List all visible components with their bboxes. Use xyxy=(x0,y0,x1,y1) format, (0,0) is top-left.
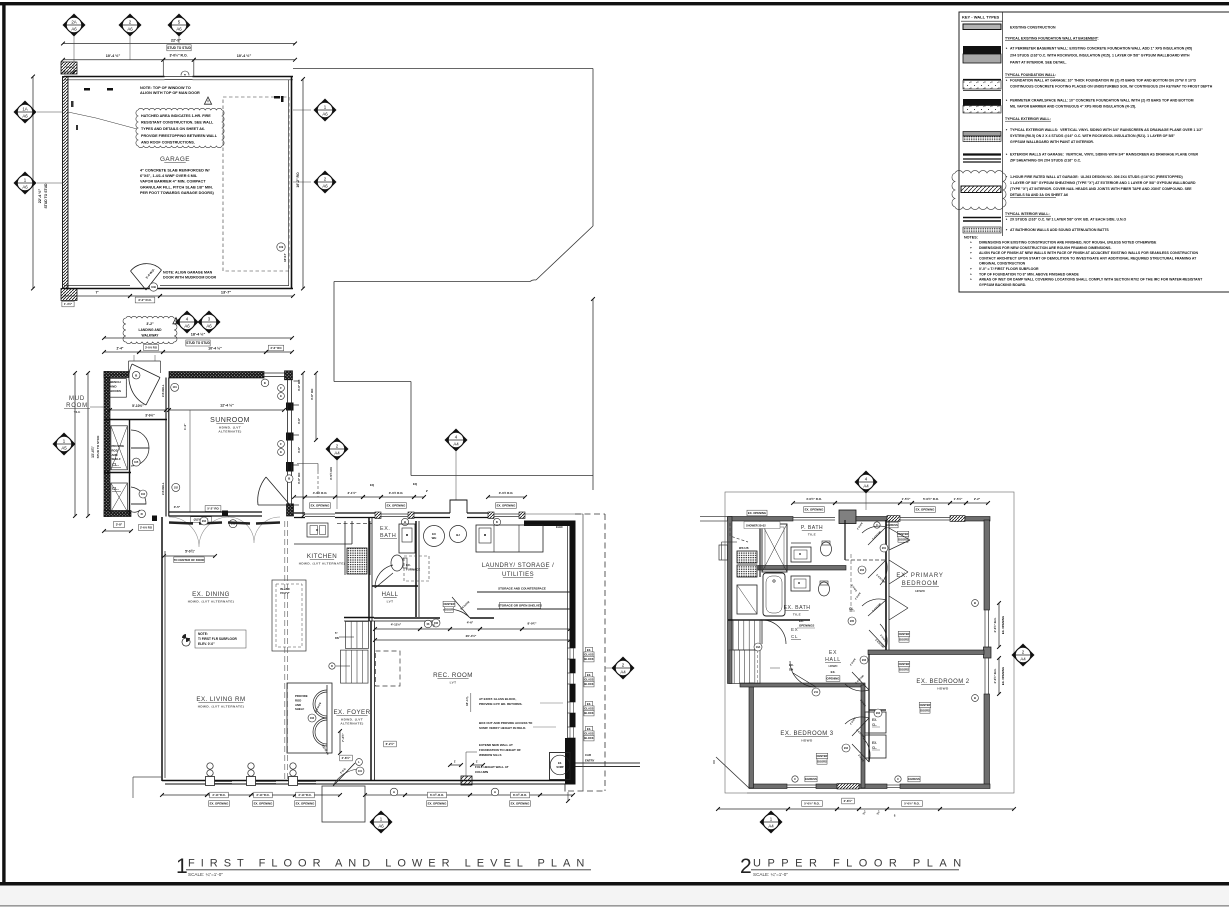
svg-text:BLOCK: BLOCK xyxy=(584,736,593,740)
benchmark note first floor subfloor xyxy=(195,630,246,648)
svg-text:EGRESS: EGRESS xyxy=(805,777,817,781)
svg-text:HATCHED AREA INDICATES 1-HR. F: HATCHED AREA INDICATES 1-HR. FIRE xyxy=(141,114,211,118)
marker 2/A6 right of garage xyxy=(314,171,337,194)
svg-text:SUNROOM: SUNROOM xyxy=(210,417,250,424)
legend swatch typical exterior wall xyxy=(963,132,1001,137)
svg-text:T/ FIRST FLR SUBFLOOR: T/ FIRST FLR SUBFLOOR xyxy=(198,637,237,641)
svg-text:GLASS: GLASS xyxy=(585,678,594,682)
svg-text:ALIGN FACE OF FINISH AT NEW WA: ALIGN FACE OF FINISH AT NEW WALLS WITH F… xyxy=(979,251,1198,255)
svg-text:DOORS: DOORS xyxy=(899,637,909,641)
svg-text:C: C xyxy=(794,777,796,781)
svg-text:A6: A6 xyxy=(322,184,328,189)
svg-text:CENTER: CENTER xyxy=(817,754,828,758)
laundry circle BJ xyxy=(450,526,467,543)
svg-text:10'-4 ½": 10'-4 ½" xyxy=(208,347,222,351)
svg-text:STUD TO STUD: STUD TO STUD xyxy=(44,183,48,209)
upper top wall segments xyxy=(728,517,794,522)
legend swatch interior wall sound xyxy=(963,227,1001,233)
svg-text:MIL VAPOR BARRIER AND CONTINUO: MIL VAPOR BARRIER AND CONTINUOUS 4" XPS … xyxy=(1010,105,1136,109)
kitchen range xyxy=(347,548,367,574)
sunroom bottom dims xyxy=(205,506,221,512)
svg-text:4'-0½" R.O.: 4'-0½" R.O. xyxy=(993,617,997,632)
kitchen upper cabinet dashed line xyxy=(337,523,372,525)
svg-text:NOTE:: NOTE: xyxy=(198,632,208,636)
svg-text:5'-0½" R.O.: 5'-0½" R.O. xyxy=(804,802,820,806)
deck edge line right of rec room xyxy=(582,514,584,791)
svg-text:EX. OPENING: EX. OPENING xyxy=(805,508,825,512)
marker 1/A4 below upper plan xyxy=(760,811,783,834)
svg-text:SHOWER 32×32: SHOWER 32×32 xyxy=(746,524,766,528)
existing house outline diagonal xyxy=(536,226,593,280)
ex opening window laundry xyxy=(494,513,519,515)
chimney bump xyxy=(450,500,467,513)
marker 2/A4 right of upper plan xyxy=(1012,644,1035,667)
svg-text:TYPICAL INTERIOR WALL:: TYPICAL INTERIOR WALL: xyxy=(1005,212,1050,216)
beam dashed line dining xyxy=(284,521,286,780)
kitchen right counter xyxy=(344,521,346,575)
svg-text:FOUNDATION WALL AT GARAGE: 10": FOUNDATION WALL AT GARAGE: 10" THICK FOU… xyxy=(1010,79,1197,83)
flue dashed line xyxy=(730,523,748,542)
svg-text:BLOCK: BLOCK xyxy=(584,682,593,686)
cloud note landing and walkway xyxy=(123,316,177,343)
svg-text:D: D xyxy=(331,665,333,668)
svg-text:BLOCK: BLOCK xyxy=(584,711,593,715)
svg-text:1'-4": 1'-4" xyxy=(183,423,187,430)
upper dim row above xyxy=(793,502,835,504)
sunroom top wall insulated band xyxy=(169,372,264,379)
svg-text:SUMP: SUMP xyxy=(556,766,564,769)
svg-text:ALIGN WITH TOP OF MAN DOOR: ALIGN WITH TOP OF MAN DOOR xyxy=(140,91,200,95)
upper left wall xyxy=(728,517,733,684)
svg-text:OPENINGS: OPENINGS xyxy=(799,624,814,628)
svg-text:EX.: EX. xyxy=(831,670,836,674)
marker 2A/A6 xyxy=(63,14,86,37)
left ledge line upper plan xyxy=(722,541,738,543)
svg-text:1-HOUR FIRE RATED WALL AT GARA: 1-HOUR FIRE RATED WALL AT GARAGE: UL263 … xyxy=(1010,175,1183,179)
svg-text:T/: T/ xyxy=(335,631,338,635)
svg-text:2×6 WALL: 2×6 WALL xyxy=(161,384,165,397)
svg-text:CENTER: CENTER xyxy=(443,602,454,606)
svg-text:UPPER FLOOR PLAN: UPPER FLOOR PLAN xyxy=(753,858,968,870)
sunroom right wall window blocks xyxy=(286,403,294,411)
svg-text:DOOR WITH MUDROOM DOOR: DOOR WITH MUDROOM DOOR xyxy=(163,276,217,280)
svg-text:EX.: EX. xyxy=(587,673,591,677)
svg-text:CENTER: CENTER xyxy=(899,632,910,636)
garage top wall window xyxy=(165,76,193,81)
marker 5/A6 xyxy=(168,14,191,37)
upper plan existing footprint outline xyxy=(725,492,1014,793)
sunroom right outside dim column xyxy=(302,373,304,516)
svg-text:EX. OPENING: EX. OPENING xyxy=(387,504,407,508)
garage top dimension line 22'-9 xyxy=(63,43,295,45)
ex cl door swing xyxy=(762,620,786,644)
svg-text:EX.: EX. xyxy=(789,663,794,667)
wd closet partition xyxy=(759,521,761,577)
window sill ticks right wall xyxy=(294,380,300,382)
svg-text:EX.: EX. xyxy=(872,718,877,722)
garage right wall window mark xyxy=(274,96,280,99)
svg-text:PERIMETER CRAWLSPACE WALL: 10": PERIMETER CRAWLSPACE WALL: 10" CONCRETE … xyxy=(1010,99,1194,103)
svg-text:STORAGE OR OPEN SHELVES: STORAGE OR OPEN SHELVES xyxy=(498,604,542,608)
svg-text:1: 1 xyxy=(176,855,188,878)
svg-text:B: B xyxy=(974,601,976,605)
railing double line to car entry xyxy=(576,762,641,764)
bottom right wall step xyxy=(564,785,566,792)
svg-text:13'-4¾": 13'-4¾" xyxy=(91,446,95,458)
svg-text:A6: A6 xyxy=(71,27,77,32)
svg-text:FULL HEIGHT WALL AT: FULL HEIGHT WALL AT xyxy=(475,765,509,769)
svg-text:ROD: ROD xyxy=(112,448,118,452)
svg-text:EX. OPENING: EX. OPENING xyxy=(296,802,316,806)
french door swings into dining xyxy=(169,517,229,547)
svg-text:EX.: EX. xyxy=(872,741,877,745)
svg-text:CL.: CL. xyxy=(112,462,119,467)
garage man door swing xyxy=(131,264,162,290)
svg-text:101: 101 xyxy=(358,770,363,773)
mudroom top dimension 18'-4 xyxy=(104,337,292,339)
svg-text:TO CENTER OF DOOR: TO CENTER OF DOOR xyxy=(174,558,206,562)
svg-text:5'-0½" R.O.: 5'-0½" R.O. xyxy=(923,497,939,501)
bottom dim row main plan xyxy=(162,794,207,796)
svg-text:ROOM: ROOM xyxy=(66,403,88,409)
warning triangle garage xyxy=(204,97,211,104)
svg-text:A4: A4 xyxy=(768,824,774,829)
laundry counter with sink xyxy=(476,525,543,552)
svg-text:STORAGE AND COUNTERSPACE: STORAGE AND COUNTERSPACE xyxy=(498,587,546,591)
svg-text:FIRST FLOOR AND LOWER LEVEL PL: FIRST FLOOR AND LOWER LEVEL PLAN xyxy=(188,858,590,870)
svg-text:3'-11"R.O.: 3'-11"R.O. xyxy=(256,793,269,797)
svg-text:10'-4 ½": 10'-4 ½" xyxy=(106,54,121,58)
hall door swing to bedroom3 area xyxy=(790,661,816,687)
center doors label bedroom3 closet xyxy=(816,753,828,758)
svg-text:AND ROOF CONSTRUCTIONS.: AND ROOF CONSTRUCTIONS. xyxy=(141,140,195,144)
sunroom right wall windows xyxy=(287,380,289,504)
svg-text:5'-10½": 5'-10½" xyxy=(132,404,144,408)
svg-text:DOORS: DOORS xyxy=(920,708,930,712)
bath toilet xyxy=(391,555,403,571)
svg-text:5'-0¾": 5'-0¾" xyxy=(185,550,195,554)
cloud note hatched area fire resistant xyxy=(136,108,224,147)
svg-text:DETAILS 5A AND 3A ON SHEET A6: DETAILS 5A AND 3A ON SHEET A6 xyxy=(1010,193,1068,197)
svg-text:5'-2" RO: 5'-2" RO xyxy=(207,507,219,511)
svg-text:E: E xyxy=(280,450,282,454)
marker 2/A4 left of kitchen top xyxy=(326,438,349,461)
svg-text:EX. LIVING RM: EX. LIVING RM xyxy=(196,696,245,703)
svg-text:PER FOOT TOWARDS GARAGE DOORS): PER FOOT TOWARDS GARAGE DOORS) xyxy=(140,191,214,195)
svg-text:ROD: ROD xyxy=(295,698,301,702)
svg-text:A4: A4 xyxy=(453,442,459,447)
svg-text:FOUNDATION TO HEIGHT OF: FOUNDATION TO HEIGHT OF xyxy=(479,748,521,752)
garage window mark right wall xyxy=(281,96,284,102)
svg-text:102: 102 xyxy=(174,486,179,489)
svg-text:3'0×7'2": 3'0×7'2" xyxy=(280,591,291,595)
svg-text:205: 205 xyxy=(850,620,855,623)
legend swatch interior wall xyxy=(963,217,1001,219)
right side dim strip xyxy=(998,603,1000,647)
svg-text:GRANULAR FILL. PITCH SLAB 1/8": GRANULAR FILL. PITCH SLAB 1/8" MIN. xyxy=(140,185,213,189)
marker 1/A5 left of mudroom xyxy=(53,433,76,456)
sheet border top xyxy=(0,2,1229,5)
stair lower flight xyxy=(341,650,369,683)
svg-text:A4: A4 xyxy=(334,451,340,456)
svg-text:DOORS: DOORS xyxy=(817,759,827,763)
svg-text:PAINT AT INTERIOR. SEE DETAIL.: PAINT AT INTERIOR. SEE DETAIL. xyxy=(1010,61,1066,65)
svg-text:EX. OPENING: EX. OPENING xyxy=(1001,667,1005,685)
svg-text:CL.: CL. xyxy=(112,486,119,491)
svg-text:TYPES AND DETAILS ON SHEET A6.: TYPES AND DETAILS ON SHEET A6. xyxy=(141,127,205,131)
svg-text:PROVIDE GYP. BD. RETURNS.: PROVIDE GYP. BD. RETURNS. xyxy=(479,702,522,706)
shower xyxy=(762,524,787,572)
svg-text:204: 204 xyxy=(860,569,865,572)
sunroom top right window xyxy=(264,372,285,374)
svg-text:3'-9½": 3'-9½" xyxy=(145,414,155,418)
column at rec room bottom xyxy=(461,776,472,785)
garage bottom dimension line xyxy=(64,295,130,297)
door tags upper xyxy=(880,544,888,552)
svg-text:BLOCK: BLOCK xyxy=(584,657,593,661)
door tag 105 xyxy=(132,458,140,466)
svg-text:3'-5½ RO: 3'-5½ RO xyxy=(329,466,333,480)
svg-text:4'-0½" R.O.: 4'-0½" R.O. xyxy=(993,668,997,683)
svg-text:2'-8½": 2'-8½" xyxy=(342,756,351,760)
svg-text:HDWD: HDWD xyxy=(915,589,925,593)
door tag 203 xyxy=(229,520,237,528)
legend column divider xyxy=(1002,12,1004,236)
garage top dimension line second row xyxy=(63,59,163,61)
stair upper flight xyxy=(345,622,368,649)
svg-text:GYPSUM BACKING BOARD.: GYPSUM BACKING BOARD. xyxy=(979,283,1026,287)
svg-text:105: 105 xyxy=(134,461,139,464)
svg-text:ZIP SHEATHING ON 2X4 STUDS @16: ZIP SHEATHING ON 2X4 STUDS @16" O.C. xyxy=(1010,159,1081,163)
svg-text:EX. BEDROOM 2: EX. BEDROOM 2 xyxy=(916,679,969,685)
corridor wall xyxy=(868,654,870,762)
svg-text:2'-6½ RO: 2'-6½ RO xyxy=(140,526,153,530)
svg-text:202: 202 xyxy=(202,520,207,523)
svg-text:STUD TO STUD: STUD TO STUD xyxy=(186,341,210,345)
svg-text:E: E xyxy=(280,394,282,398)
svg-text:EX. BEDROOM 3: EX. BEDROOM 3 xyxy=(780,731,833,737)
svg-text:CL: CL xyxy=(849,607,854,611)
upper stairs down flight 2 xyxy=(729,650,760,684)
svg-text:2X4 STUDS @16"O.C. WITH ROCKWO: 2X4 STUDS @16"O.C. WITH ROCKWOOL INSULAT… xyxy=(1010,54,1190,58)
garage left dimension 22'-4 xyxy=(32,77,34,289)
marker 1/A6 bottom of first floor plan xyxy=(370,811,393,834)
svg-text:WALKWAY: WALKWAY xyxy=(142,334,160,338)
svg-text:16'-2" RO: 16'-2" RO xyxy=(296,172,300,188)
circled B top wall xyxy=(132,371,140,379)
svg-text:EGRESS: EGRESS xyxy=(908,777,920,781)
svg-text:3'-2" R.O.: 3'-2" R.O. xyxy=(138,298,152,302)
main floor left wall xyxy=(161,517,163,781)
garage left wall top return detail xyxy=(61,62,77,74)
existing house outline right lower vertical xyxy=(592,299,594,490)
corner block left of dining wall xyxy=(152,516,157,522)
svg-text:GLASS: GLASS xyxy=(585,732,594,736)
svg-text:DIMENSIONS FOR EXISTING CONSTR: DIMENSIONS FOR EXISTING CONSTRUCTION ARE… xyxy=(979,241,1157,245)
svg-text:EX. OPENING: EX. OPENING xyxy=(497,504,517,508)
svg-text:EX. PRIMARY: EX. PRIMARY xyxy=(896,573,943,579)
garage interior wall blocking marks xyxy=(84,88,90,91)
svg-text:TOP OF FOUNDATION TO 8" MIN. A: TOP OF FOUNDATION TO 8" MIN. ABOVE FINIS… xyxy=(979,272,1080,276)
svg-text:211: 211 xyxy=(814,691,819,694)
rec room left wall xyxy=(370,621,372,781)
leader from cloud to fire wall xyxy=(96,118,137,129)
bath vanity xyxy=(399,524,415,553)
main floor bottom wall xyxy=(162,780,576,782)
svg-text:GARAGE: GARAGE xyxy=(160,156,190,163)
svg-text:6'-0¾ R.O.: 6'-0¾ R.O. xyxy=(430,793,444,797)
svg-text:202: 202 xyxy=(844,747,849,750)
kitchen top wall segments xyxy=(294,512,305,514)
svg-text:3'-11"R.O.: 3'-11"R.O. xyxy=(298,793,311,797)
svg-text:20'-4½": 20'-4½" xyxy=(466,634,477,638)
circled H K wall tags xyxy=(401,518,408,525)
svg-text:103: 103 xyxy=(310,717,315,720)
bath divider wall xyxy=(758,566,846,571)
door tag 102 xyxy=(172,483,180,491)
upper plan left side small walls xyxy=(719,545,728,560)
existing house outline right vertical xyxy=(592,69,594,227)
svg-text:3'-6": 3'-6" xyxy=(297,417,301,424)
svg-text:(TYPE "X") AT INTERIOR. COVER: (TYPE "X") AT INTERIOR. COVER NAIL HEADS… xyxy=(1010,187,1192,191)
svg-text:PROVIDE: PROVIDE xyxy=(112,444,125,448)
svg-text:GLASS: GLASS xyxy=(585,653,594,657)
svg-text:EX.: EX. xyxy=(558,762,562,765)
rec room right wall inner face line xyxy=(567,526,569,738)
svg-text:A4: A4 xyxy=(863,484,869,489)
svg-text:10B: 10B xyxy=(151,285,156,289)
svg-text:B: B xyxy=(974,696,976,700)
svg-text:AT BATHROOM WALLS ADD SOUND AT: AT BATHROOM WALLS ADD SOUND ATTENUATION … xyxy=(1010,228,1109,232)
svg-text:ELEV. 0'-0": ELEV. 0'-0" xyxy=(198,642,215,646)
legend cloud fire rated wall xyxy=(952,171,1006,210)
svg-text:18'-4 ½": 18'-4 ½" xyxy=(191,333,206,337)
laundry circles EX WH xyxy=(424,526,445,547)
existing house outline upper step xyxy=(334,281,530,283)
ex opening dim laundry xyxy=(488,496,525,498)
svg-text:HDWD: HDWD xyxy=(829,664,838,668)
bedroom3 left wall xyxy=(749,683,754,788)
svg-text:ELEC: ELEC xyxy=(556,525,563,529)
svg-text:3'-1½": 3'-1½" xyxy=(348,491,358,495)
svg-text:4'-0½" R.O.: 4'-0½" R.O. xyxy=(806,497,822,501)
svg-text:EXISTING CONSTRUCTION: EXISTING CONSTRUCTION xyxy=(1010,26,1056,30)
garage right dimension 16'-2 xyxy=(302,79,304,289)
svg-text:3': 3' xyxy=(433,624,436,628)
svg-text:A6: A6 xyxy=(176,27,182,32)
svg-text:CL.: CL. xyxy=(872,746,877,750)
svg-text:VAPOR BARRIER 4" MIN. COMPACT: VAPOR BARRIER 4" MIN. COMPACT xyxy=(140,180,206,184)
kitchen island dashed xyxy=(272,580,306,651)
svg-text:3'-6": 3'-6" xyxy=(297,446,301,453)
svg-text:EX. FOYER: EX. FOYER xyxy=(333,709,370,716)
svg-text:1'-4½": 1'-4½" xyxy=(64,302,73,306)
egress label top xyxy=(874,522,880,528)
ex bath vanity xyxy=(791,576,810,591)
svg-text:2'-8½": 2'-8½" xyxy=(844,799,853,803)
svg-text:TYPICAL FOUNDATION WALL:: TYPICAL FOUNDATION WALL: xyxy=(1005,73,1056,77)
svg-text:CONTACT ARCHITECT UPON START O: CONTACT ARCHITECT UPON START OF DEMOLITI… xyxy=(979,256,1197,260)
legend swatch exterior wall at garage xyxy=(963,153,1001,155)
bedroom divider wall xyxy=(868,650,984,655)
svg-text:A6: A6 xyxy=(206,324,212,329)
svg-text:CONTINUOUS CONCRETE FOOTING PL: CONTINUOUS CONCRETE FOOTING PLACED ON UN… xyxy=(1010,85,1213,89)
svg-text:ALTERNATE): ALTERNATE) xyxy=(340,722,363,726)
roof overhang dashed right of rec room xyxy=(604,514,606,791)
svg-text:AND: AND xyxy=(295,703,301,707)
corridor door swings xyxy=(862,526,886,545)
sunroom interior line at beam xyxy=(189,410,191,512)
svg-text:22'-4 ½": 22'-4 ½" xyxy=(38,189,42,204)
svg-text:CENTER: CENTER xyxy=(920,703,931,707)
svg-text:A6: A6 xyxy=(378,824,384,829)
svg-text:104: 104 xyxy=(141,493,146,496)
dashed chase next to stairs xyxy=(376,651,401,686)
leader full height wall note xyxy=(466,751,477,753)
door tag D bottom xyxy=(138,510,146,518)
svg-text:LVT: LVT xyxy=(387,599,394,603)
svg-text:EGRESS: EGRESS xyxy=(886,523,898,527)
svg-text:NOTES:: NOTES: xyxy=(964,236,978,240)
svg-text:H: H xyxy=(404,520,406,524)
svg-text:0'-0" = T/ FIRST FLOOR SUBFLOO: 0'-0" = T/ FIRST FLOOR SUBFLOOR xyxy=(979,267,1039,271)
porch column bases xyxy=(206,777,215,786)
title block divider bar xyxy=(0,882,1229,886)
svg-text:3'-0" RO: 3'-0" RO xyxy=(297,472,301,484)
svg-text:8'-0¾": 8'-0¾" xyxy=(528,622,538,626)
svg-text:16'/17': 16'/17' xyxy=(283,253,287,262)
svg-text:A6: A6 xyxy=(127,27,133,32)
svg-text:C: C xyxy=(897,777,899,781)
svg-text:1': 1' xyxy=(454,760,457,764)
svg-text:A6: A6 xyxy=(322,112,328,117)
legend swatch foundation wall at garage xyxy=(963,79,1001,81)
garage slab dashed apron xyxy=(223,97,289,271)
svg-text:8'-0¾ R.O.: 8'-0¾ R.O. xyxy=(513,793,527,797)
closet front wall xyxy=(129,420,131,517)
svg-text:WINDOW SILLS: WINDOW SILLS xyxy=(479,753,502,757)
svg-text:HDWD: HDWD xyxy=(937,686,949,690)
svg-text:3'-11"R.O.: 3'-11"R.O. xyxy=(212,793,225,797)
svg-text:3'-0½" R.O.: 3'-0½" R.O. xyxy=(169,54,187,58)
circled F E window tags xyxy=(278,385,285,392)
svg-text:FURNACE: FURNACE xyxy=(406,567,420,571)
upper left ex opening xyxy=(747,510,767,516)
svg-text:BATH: BATH xyxy=(380,533,396,539)
svg-text:22'-9": 22'-9" xyxy=(171,38,182,42)
svg-text:6'-2½": 6'-2½" xyxy=(386,742,395,746)
chimney block top xyxy=(839,510,856,524)
svg-text:EX. OPENING: EX. OPENING xyxy=(748,511,766,515)
circled E on sunroom top wall xyxy=(261,379,269,387)
svg-text:EX.: EX. xyxy=(380,526,391,532)
svg-text:HDWD. (LVT ALTERNATE): HDWD. (LVT ALTERNATE) xyxy=(299,561,345,565)
door tag 104 xyxy=(139,490,147,498)
hatched jamb blocks laundry opening xyxy=(488,512,494,519)
garage top-left small dims xyxy=(63,71,74,73)
svg-text:EXTERIOR WALLS AT GARAGE: VER: EXTERIOR WALLS AT GARAGE: VERTICAL VINYL… xyxy=(1010,153,1199,157)
svg-text:201: 201 xyxy=(882,547,887,550)
svg-text:SUMP. VERIFY HEIGHT IN FIELD.: SUMP. VERIFY HEIGHT IN FIELD. xyxy=(479,726,526,730)
circled B at sunroom door xyxy=(285,475,293,483)
svg-text:1A: 1A xyxy=(22,107,27,112)
stair down arrow lower xyxy=(336,665,350,667)
tub xyxy=(763,573,785,616)
svg-text:HOOKS: HOOKS xyxy=(110,389,121,393)
hatched jambs upper top wall xyxy=(887,516,900,522)
marker 1/A6 right of garage xyxy=(314,99,337,122)
svg-text:GLASS: GLASS xyxy=(585,707,594,711)
